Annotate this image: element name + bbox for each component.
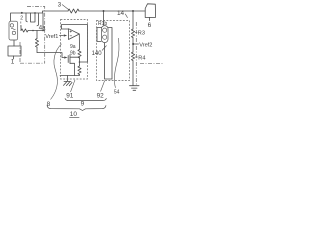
svg-text:92: 92 (97, 92, 105, 99)
svg-text:4a: 4a (39, 26, 46, 32)
svg-text:140: 140 (92, 51, 103, 57)
svg-text:9a: 9a (70, 44, 76, 50)
svg-text:R3: R3 (138, 31, 145, 37)
svg-text:9: 9 (81, 100, 85, 107)
svg-text:54: 54 (114, 90, 120, 96)
svg-text:91: 91 (66, 92, 74, 99)
svg-text:1: 1 (11, 58, 15, 65)
svg-text:Vref1: Vref1 (45, 34, 58, 40)
svg-text:R4: R4 (138, 56, 145, 62)
svg-text:8: 8 (47, 101, 51, 108)
svg-text:14: 14 (117, 10, 125, 17)
svg-text:3: 3 (58, 1, 62, 8)
svg-text:6: 6 (148, 22, 152, 29)
svg-text:Vref2: Vref2 (139, 43, 152, 49)
svg-text:9b: 9b (70, 51, 76, 57)
svg-text:2: 2 (20, 15, 23, 21)
svg-text:R1b: R1b (98, 21, 107, 27)
